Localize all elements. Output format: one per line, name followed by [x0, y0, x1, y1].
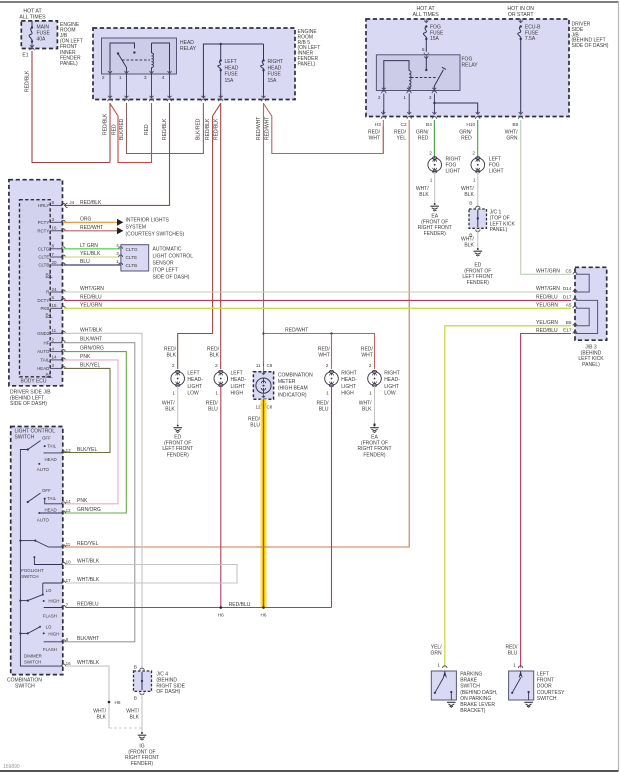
svg-text:BLU: BLU	[508, 651, 518, 657]
svg-text:4: 4	[162, 75, 165, 81]
light control switch contact set 1	[27, 448, 29, 450]
svg-text:WHT: WHT	[369, 136, 380, 142]
svg-text:BODY ECU: BODY ECU	[21, 379, 47, 385]
wire RED/BLU high beam indicator to dimmer row (highlighted)	[260, 399, 266, 607]
svg-text:LOW: LOW	[187, 391, 199, 397]
wire RED/BLU body ECU DCTY to J/B 3 D17	[64, 299, 571, 301]
wire RED/YEL crossing over highlight	[256, 546, 271, 548]
svg-text:SYSTEM: SYSTEM	[126, 225, 147, 231]
svg-text:HIGH: HIGH	[48, 631, 59, 636]
svg-text:C2: C2	[401, 122, 407, 128]
wire BLK/YEL body ECU HEAD to light control switch pin 13	[63, 368, 110, 452]
svg-text:HEAD-: HEAD-	[341, 377, 357, 383]
wire YEL/BLK CLTE to light control sensor	[64, 256, 121, 258]
wire RED/BLK left head fuse to LEFT HEADLIGHT LOW	[178, 104, 221, 370]
page right border	[618, 2, 620, 771]
J/B 3 box (behind left kick panel)	[575, 267, 607, 340]
svg-text:DCTY: DCTY	[37, 298, 49, 303]
svg-text:2: 2	[378, 95, 381, 101]
svg-text:METER: METER	[278, 379, 296, 385]
wire RED/WHT RCTY to interior lights system	[64, 230, 117, 232]
svg-text:BLK: BLK	[97, 715, 107, 721]
svg-text:SIDE OF DASH): SIDE OF DASH)	[153, 275, 190, 281]
svg-text:BLK: BLK	[210, 353, 220, 359]
svg-text:40A: 40A	[37, 37, 47, 43]
svg-text:10: 10	[66, 560, 72, 565]
svg-text:LEFT: LEFT	[537, 672, 549, 678]
svg-text:C8: C8	[267, 363, 273, 368]
svg-text:BLK: BLK	[464, 192, 474, 198]
svg-text:RED/BLU: RED/BLU	[536, 294, 558, 300]
wire WHT/BLK dimmer pin 16 to ground IG	[66, 666, 109, 728]
svg-text:RIGHT FRONT: RIGHT FRONT	[357, 446, 391, 452]
ground parking brake switch	[447, 701, 456, 703]
svg-text:BLK: BLK	[464, 243, 474, 249]
svg-text:H3: H3	[375, 122, 381, 128]
head relay coil side	[151, 43, 153, 53]
svg-text:BRAKE LEVER: BRAKE LEVER	[460, 702, 495, 708]
svg-text:2: 2	[369, 363, 372, 369]
svg-text:GRN/ORG: GRN/ORG	[80, 346, 104, 352]
wire RED head relay pin 2 to pin 3 (coil feed)	[110, 103, 152, 163]
wire WHT/BLK body ECU GND2 to J/C 4 and ground IG	[64, 333, 142, 669]
svg-text:CLTE: CLTE	[38, 255, 49, 260]
svg-text:HEAD: HEAD	[180, 40, 194, 46]
svg-text:FUSE: FUSE	[225, 72, 239, 78]
svg-text:1: 1	[369, 391, 372, 397]
wire WHT/BLK J/C 4 to ground IG	[141, 693, 143, 732]
svg-text:H6: H6	[218, 613, 224, 618]
svg-text:AUTO: AUTO	[37, 349, 50, 354]
svg-text:COURTESY: COURTESY	[537, 690, 565, 696]
svg-text:HEAD: HEAD	[45, 457, 57, 462]
wire RED/BLK head relay pin 2 drop	[109, 103, 111, 163]
svg-text:B4: B4	[426, 122, 432, 128]
ground EA (front of right front fender) fog	[434, 203, 436, 205]
svg-text:RED/WHT: RED/WHT	[256, 117, 262, 140]
wire RED/BLU J/B 3 E17 to left front door courtesy switch	[521, 334, 571, 668]
svg-text:HIGH: HIGH	[48, 598, 59, 603]
svg-text:(COURTESY SWITCHES): (COURTESY SWITCHES)	[126, 232, 185, 238]
svg-text:12: 12	[66, 508, 72, 513]
svg-text:FOGLIGHT: FOGLIGHT	[21, 568, 44, 573]
svg-text:HF: HF	[43, 340, 49, 345]
svg-text:HEAD-: HEAD-	[187, 377, 203, 383]
svg-text:BLU: BLU	[208, 407, 218, 413]
ground IG (front of right front fender)	[141, 732, 143, 734]
svg-text:INTERIOR LIGHTS: INTERIOR LIGHTS	[126, 218, 170, 224]
svg-text:LIGHT: LIGHT	[341, 384, 356, 390]
svg-text:2: 2	[326, 363, 329, 369]
fog J/B bottom connectors H3 C2 B4 H10 B9	[381, 112, 385, 114]
svg-text:GRN: GRN	[506, 136, 518, 142]
svg-text:LEFT: LEFT	[231, 371, 243, 377]
fog relay pin stubs to box edge	[383, 94, 385, 114]
svg-text:TAIL: TAIL	[47, 444, 57, 449]
fog relay internal coil side	[384, 61, 409, 89]
svg-text:FOG: FOG	[462, 57, 473, 63]
svg-text:BLK/RED: BLK/RED	[196, 118, 202, 140]
wire RED/BLK left head fuse to LEFT HEADLIGHT HIGH	[220, 103, 222, 369]
svg-text:RED: RED	[461, 136, 472, 142]
svg-text:R: R	[46, 290, 49, 295]
fuse FOG FUSE 15A	[424, 21, 428, 23]
svg-text:ALL TIMES: ALL TIMES	[19, 14, 46, 20]
svg-text:BLK/YEL: BLK/YEL	[77, 447, 98, 453]
svg-text:B: B	[469, 201, 472, 207]
svg-text:3: 3	[429, 95, 432, 101]
head relay pin arrows at relay bottom	[108, 71, 112, 73]
junction H6 on pin 16 wire	[108, 701, 111, 704]
svg-text:7.5A: 7.5A	[525, 36, 536, 42]
svg-text:YEL/GRN: YEL/GRN	[536, 320, 558, 326]
svg-text:FENDER): FENDER)	[467, 280, 490, 286]
svg-text:PNK: PNK	[80, 354, 91, 360]
J/B 3 edge connectors C5 D14 D17 A5 B5 E17	[573, 272, 577, 274]
combination switch pin cups and numbers	[62, 451, 66, 453]
wire RED/BLK HRLY row label and J4 connector	[65, 203, 67, 207]
svg-text:PANEL): PANEL)	[60, 61, 78, 67]
svg-text:SWITCH: SWITCH	[15, 684, 35, 690]
svg-text:YEL/BLK: YEL/BLK	[80, 251, 101, 257]
svg-text:CLTG: CLTG	[126, 247, 139, 252]
svg-text:PNK: PNK	[77, 498, 88, 504]
svg-text:RED/WHT: RED/WHT	[80, 225, 103, 231]
svg-text:14: 14	[52, 355, 58, 360]
svg-text:BLK/WHT: BLK/WHT	[77, 636, 99, 642]
svg-text:RED/WHT: RED/WHT	[285, 328, 308, 334]
svg-text:RIGHT: RIGHT	[384, 371, 400, 377]
wire RED/WHT right head fuse branch to fog J/B H3	[264, 104, 384, 154]
body ECU inner box	[20, 200, 51, 377]
svg-text:BLK: BLK	[362, 407, 372, 413]
svg-text:BLU: BLU	[319, 407, 329, 413]
svg-text:DIMMER: DIMMER	[24, 654, 42, 659]
svg-text:17: 17	[66, 578, 72, 583]
svg-text:2: 2	[429, 151, 432, 157]
svg-text:(BEHIND DASH,: (BEHIND DASH,	[460, 690, 497, 696]
svg-text:RED: RED	[112, 124, 118, 135]
svg-text:BLK: BLK	[419, 192, 429, 198]
svg-text:FRONT: FRONT	[537, 678, 554, 684]
svg-text:FLASH: FLASH	[43, 613, 57, 618]
svg-text:H10: H10	[466, 122, 475, 128]
wire BLK/RED head relay pin 1 to head fuses	[127, 103, 204, 154]
svg-text:5: 5	[422, 47, 425, 53]
svg-text:11: 11	[256, 363, 261, 368]
wire WHT/BLK J/C 1 to ground ED	[477, 230, 479, 248]
wire GRN/RED fog J/B B4 to RIGHT FOG LIGHT	[433, 120, 435, 158]
svg-text:WHT: WHT	[318, 353, 329, 359]
svg-text:OFF: OFF	[42, 436, 51, 441]
wire WHT/BLK dashed link to ground IG	[109, 727, 142, 729]
svg-text:C5: C5	[566, 269, 572, 274]
svg-text:RELAY: RELAY	[180, 46, 197, 52]
fuse feed from pin 1 into box (BLK/RED riser)	[201, 96, 205, 98]
junction H6 left headlight high	[220, 606, 223, 609]
wire ORG PCTY to interior lights system	[64, 221, 117, 223]
wire WHT/GRN body ECU R to J/B 3 D14	[64, 291, 571, 293]
ground courtesy switch	[524, 701, 533, 703]
head relay pin stubs to box edge	[109, 74, 111, 98]
ground ED (front of left front fender) fog side	[477, 248, 479, 250]
svg-text:YEL/GRN: YEL/GRN	[80, 302, 102, 308]
svg-text:H6: H6	[115, 700, 121, 705]
svg-text:HRLY: HRLY	[38, 203, 49, 208]
wire RED/BLK main fuse E1 to head relay pin 2	[32, 51, 110, 163]
head relay internal contact side	[110, 43, 135, 72]
wire RED/BLU left headlight high to dimmer row	[220, 386, 222, 608]
svg-text:1: 1	[215, 391, 218, 397]
svg-text:8: 8	[66, 637, 69, 642]
svg-text:FENDER): FENDER)	[167, 452, 190, 458]
svg-text:2: 2	[102, 75, 105, 81]
wire RED/WHT fog J/B H3 drop	[382, 120, 384, 154]
wire GRN/RED fog J/B H10 to LEFT FOG LIGHT	[477, 120, 479, 158]
wire YEL/GRN body ECU PKB to J/B 3 A5	[64, 307, 571, 309]
svg-text:16: 16	[66, 661, 72, 666]
svg-text:SIDE OF DASH): SIDE OF DASH)	[10, 401, 47, 407]
svg-text:LEFT: LEFT	[187, 371, 199, 377]
svg-text:H6: H6	[261, 613, 267, 618]
svg-text:SENSOR: SENSOR	[153, 261, 175, 267]
wire PNK body ECU TAIL to light control switch pin 14	[63, 360, 118, 504]
connector E1	[30, 48, 34, 50]
wire WHT/BLK left fog light to J/C 1	[477, 172, 479, 208]
svg-text:RED/BLU: RED/BLU	[229, 602, 251, 608]
svg-text:2: 2	[172, 363, 175, 369]
svg-text:1: 1	[403, 95, 406, 101]
svg-text:D14: D14	[563, 286, 572, 291]
svg-text:RED/BLK: RED/BLK	[25, 70, 31, 92]
svg-text:OFF: OFF	[42, 488, 51, 493]
svg-text:HEAD: HEAD	[225, 65, 239, 71]
svg-text:A5: A5	[566, 303, 572, 308]
svg-text:LEFT: LEFT	[225, 59, 237, 65]
svg-text:RED/BLK: RED/BLK	[162, 118, 168, 140]
svg-text:LIGHT: LIGHT	[187, 384, 202, 390]
svg-text:SWITCH: SWITCH	[537, 696, 557, 702]
svg-text:14: 14	[66, 499, 72, 504]
svg-text:COMBINATION: COMBINATION	[278, 373, 313, 379]
svg-text:BRAKE: BRAKE	[460, 678, 478, 684]
svg-text:159890: 159890	[3, 764, 20, 770]
svg-text:LO: LO	[46, 588, 52, 593]
svg-text:CLTG: CLTG	[38, 246, 50, 251]
svg-text:CLTE: CLTE	[126, 255, 138, 260]
svg-text:C8: C8	[267, 405, 273, 410]
svg-text:AUTOMATIC: AUTOMATIC	[153, 247, 182, 253]
wire YEL/GRN J/B 3 B5 to parking brake switch	[445, 326, 571, 668]
svg-text:15: 15	[52, 303, 58, 308]
svg-text:B4: B4	[46, 313, 52, 318]
svg-text:PANEL): PANEL)	[582, 362, 600, 368]
svg-text:1: 1	[430, 178, 433, 184]
svg-text:PANEL): PANEL)	[490, 227, 508, 233]
svg-text:1: 1	[473, 178, 476, 184]
svg-text:BRACKET): BRACKET)	[460, 708, 486, 714]
relay HEAD RELAY	[102, 38, 177, 74]
engine room R/B box (head relay + head fuses)	[93, 28, 295, 100]
svg-text:LIGHT: LIGHT	[446, 169, 461, 175]
fuse ECU-B FUSE 7.5A	[519, 21, 523, 23]
junction connector J/C 1 (top of left kick panel)	[476, 206, 480, 208]
wire WHT/BLK right fog light to ground EA	[434, 172, 436, 203]
svg-text:LOW: LOW	[384, 391, 396, 397]
svg-text:RED/BLK: RED/BLK	[103, 113, 109, 135]
svg-text:LIGHT: LIGHT	[489, 169, 504, 175]
svg-text:ORG: ORG	[80, 216, 92, 222]
svg-text:WHT/BLK: WHT/BLK	[77, 559, 100, 565]
combination switch box	[11, 427, 63, 675]
svg-text:FENDER): FENDER)	[131, 761, 154, 767]
svg-text:SWITCH: SWITCH	[460, 684, 480, 690]
svg-text:RED/WHT: RED/WHT	[264, 117, 270, 140]
svg-text:GRN: GRN	[430, 651, 442, 657]
svg-text:BLK: BLK	[165, 407, 175, 413]
svg-text:BLK: BLK	[167, 353, 177, 359]
svg-text:(TOP LEFT: (TOP LEFT	[153, 268, 178, 274]
wire LT GRN CLTG to light control sensor	[64, 248, 121, 250]
svg-text:FENDER): FENDER)	[363, 452, 386, 458]
fuse MAIN FUSE 40A	[31, 21, 33, 28]
svg-text:RED/BLK: RED/BLK	[213, 118, 219, 140]
fog relay internal contact side	[424, 57, 428, 59]
svg-text:LIGHT CONTROL: LIGHT CONTROL	[153, 254, 194, 260]
svg-text:24: 24	[52, 287, 58, 292]
svg-text:BLK/WHT: BLK/WHT	[80, 337, 102, 343]
svg-text:RED/BLU: RED/BLU	[80, 294, 102, 300]
svg-text:LEFT FRONT: LEFT FRONT	[162, 446, 193, 452]
svg-text:GRN/ORG: GRN/ORG	[77, 507, 101, 513]
svg-text:RIGHT: RIGHT	[341, 371, 357, 377]
head relay coil linkage (dashed)	[122, 59, 150, 61]
svg-text:HEAD: HEAD	[45, 508, 57, 513]
driver side J/B box (fog relay)	[366, 19, 569, 117]
svg-text:HEAD-: HEAD-	[231, 377, 247, 383]
ground EA (front of right front fender) headlight	[373, 423, 375, 425]
svg-text:7: 7	[66, 603, 69, 608]
svg-text:D17: D17	[563, 295, 572, 300]
page bottom border	[0, 770, 619, 772]
svg-text:LT GRN: LT GRN	[80, 243, 98, 249]
wire BLK/WHT body ECU HF to dimmer switch pin 8	[63, 343, 135, 642]
svg-text:RED: RED	[144, 124, 150, 135]
svg-text:FLASH: FLASH	[43, 647, 57, 652]
fog relay pin arrows and numbers 2 1 3	[382, 88, 386, 90]
wire RED/BLU right headlight high to dimmer row	[331, 386, 333, 608]
svg-text:RED/YEL: RED/YEL	[77, 541, 99, 547]
svg-text:WHT/BLK: WHT/BLK	[77, 577, 100, 583]
svg-text:GND2: GND2	[37, 331, 50, 336]
J/B 3 internal bus C5-D14	[576, 274, 589, 292]
svg-text:RED/BLU: RED/BLU	[77, 602, 99, 608]
svg-text:YEL/GRN: YEL/GRN	[536, 302, 558, 308]
svg-text:B5: B5	[46, 273, 52, 278]
svg-text:LIGHT: LIGHT	[231, 384, 246, 390]
dimmer switch contact set 1	[43, 582, 63, 584]
wire WHT/GRN fog J/B B9 to J/B 3 C5	[521, 120, 571, 274]
svg-text:(HIGH BEAM: (HIGH BEAM	[278, 386, 308, 392]
svg-text:B5: B5	[566, 320, 572, 325]
light control switch contact set 2	[27, 501, 29, 503]
wire RED/BLU dimmer pin 7 to headlight highs	[66, 607, 332, 609]
svg-text:LO: LO	[46, 625, 52, 630]
fog relay pin 3 branch to H10	[433, 102, 435, 104]
svg-text:SWITCH: SWITCH	[15, 435, 35, 441]
svg-text:1: 1	[172, 391, 175, 397]
svg-text:1: 1	[437, 663, 440, 669]
svg-text:11: 11	[52, 328, 57, 333]
svg-text:HEAD-: HEAD-	[384, 377, 400, 383]
svg-text:OF DASH): OF DASH)	[156, 689, 180, 695]
engine room J/B box (main fuse)	[21, 21, 57, 49]
svg-text:WHT/GRN: WHT/GRN	[80, 286, 104, 292]
page top border	[0, 1, 619, 3]
svg-text:15A: 15A	[268, 78, 278, 84]
svg-text:FUSE: FUSE	[37, 31, 51, 37]
svg-text:RED/BLK: RED/BLK	[205, 118, 211, 140]
svg-text:BLK/YEL: BLK/YEL	[80, 362, 101, 368]
svg-text:B: B	[134, 696, 137, 702]
svg-text:HIGH: HIGH	[341, 391, 354, 397]
svg-text:PCTY: PCTY	[38, 220, 50, 225]
svg-text:3: 3	[144, 75, 147, 81]
wire WHT/BLK right headlight low to ground EA	[374, 386, 376, 424]
svg-text:20: 20	[52, 260, 58, 265]
svg-text:CLTB: CLTB	[126, 263, 138, 268]
svg-text:WHT/BLK: WHT/BLK	[77, 660, 100, 666]
svg-text:MAIN: MAIN	[37, 25, 50, 31]
svg-text:WHT: WHT	[361, 353, 372, 359]
wire RED/WHT right head fuse to combination meter / right headlights	[263, 103, 265, 366]
ground ED (front of left front fender) headlight	[177, 425, 179, 427]
lamp high beam indicator	[263, 366, 265, 372]
svg-text:J4: J4	[69, 200, 74, 205]
svg-text:LIGHT: LIGHT	[384, 384, 399, 390]
junction H6 high beam indicator	[262, 606, 265, 609]
svg-text:CLTB: CLTB	[38, 263, 49, 268]
fuse RIGHT HEAD FUSE 15A	[263, 44, 265, 61]
svg-text:AUTO: AUTO	[37, 518, 50, 523]
svg-text:TAIL: TAIL	[47, 496, 57, 501]
svg-text:PANEL): PANEL)	[298, 61, 316, 67]
svg-text:PKB: PKB	[41, 306, 50, 311]
wire WHT/BLK foglight switch pins 10-17 bracket	[66, 565, 237, 584]
dimmer switch contact set 2	[39, 626, 41, 628]
svg-text:SWITCH: SWITCH	[24, 660, 41, 665]
svg-text:WHT/GRN: WHT/GRN	[536, 286, 560, 292]
svg-text:BLK/RED: BLK/RED	[119, 118, 125, 140]
svg-text:INDICATOR): INDICATOR)	[278, 392, 307, 398]
svg-text:ON PARKING: ON PARKING	[460, 696, 491, 702]
svg-text:OR START: OR START	[508, 12, 535, 18]
svg-text:B5: B5	[46, 373, 52, 378]
svg-text:WHT/BLK: WHT/BLK	[80, 327, 103, 333]
svg-text:BLK: BLK	[130, 715, 140, 721]
combination switch common bus	[20, 450, 62, 667]
svg-text:HEAD: HEAD	[268, 65, 282, 71]
svg-text:B9: B9	[512, 122, 518, 128]
wire RED/YEL fog J/B C2 to combination switch pin 11	[63, 120, 409, 547]
wire RED/WHT junction row to right headlights	[262, 332, 264, 334]
svg-text:2: 2	[472, 151, 475, 157]
J/B 3 internal bus A5-B5	[576, 308, 589, 326]
svg-text:2: 2	[215, 363, 218, 369]
driver side J/B box (body ECU)	[9, 180, 63, 386]
svg-text:AUTO: AUTO	[37, 467, 50, 472]
wire RED/BLK head relay pin 4 to body ECU HRLY	[64, 103, 170, 205]
